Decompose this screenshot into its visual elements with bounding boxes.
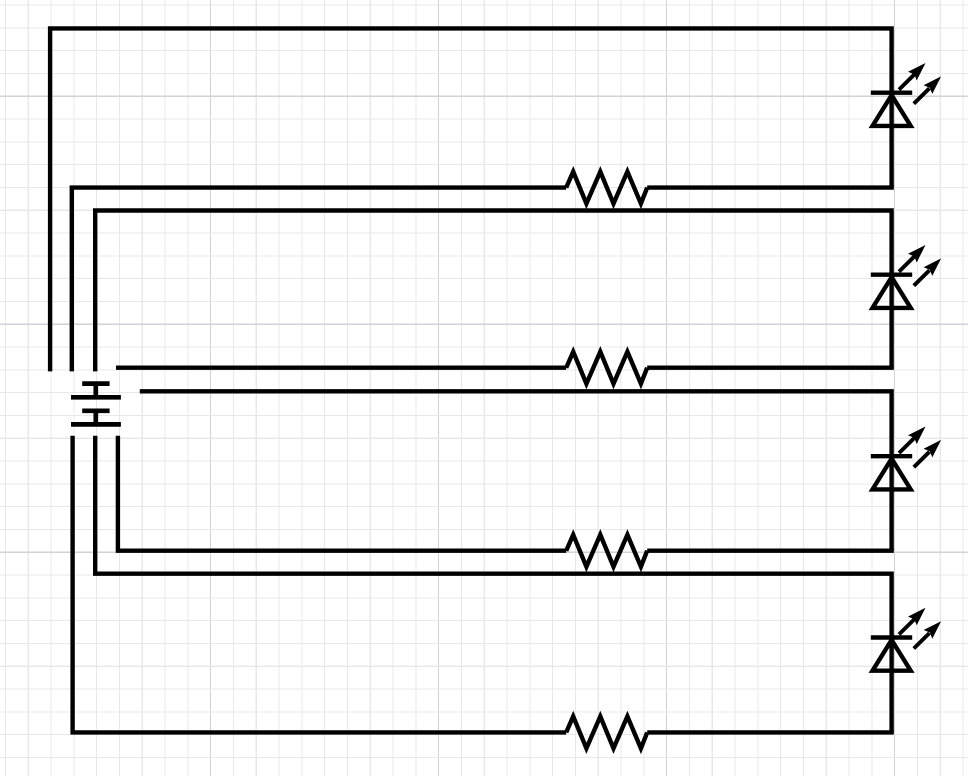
wire: loop2 return run left part (open end near battery): [116, 366, 566, 370]
wire: loop1 return run left part + left riser to battery top: [72, 188, 566, 372]
wire: loop3 top run (open end near battery) + right drop (through LED D3): [140, 391, 892, 550]
LED D3: [871, 427, 941, 490]
wire: loop4 return run left part + left riser to battery bottom: [73, 436, 567, 733]
battery BT1 (two cells): [71, 384, 121, 425]
resistor R3: [566, 535, 647, 567]
wire: loop4 left drop from battery + top run + right drop (through LED D4): [95, 436, 891, 733]
LED D2: [871, 245, 941, 308]
LED D1: [871, 63, 941, 126]
resistor R2: [566, 352, 647, 384]
wire: loop2 left riser + top run + right drop (through LED D2): [95, 211, 891, 372]
wire: loop2 return run right part: [647, 366, 894, 370]
wire: loop4 return run right part: [647, 730, 894, 734]
wire: loop3 return run right part: [647, 549, 894, 553]
resistor R1: [566, 172, 647, 204]
wire: loop1 return run right part: [647, 185, 894, 189]
LED D4: [871, 608, 941, 671]
wire: loop1 left riser + top run + right drop (through LED D1): [50, 28, 892, 371]
resistor R4: [566, 716, 647, 748]
wire: loop3 return run left part + left drop to battery bottom: [118, 436, 566, 551]
